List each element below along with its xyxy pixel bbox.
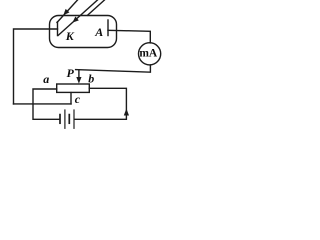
arrowhead slider P down (76, 77, 81, 84)
svg-text:a: a (43, 72, 49, 86)
battery long plate 1 (64, 110, 66, 128)
light ray 3 (88, 0, 105, 15)
slider arrow shaft P (78, 70, 80, 78)
cathode plate K (57, 22, 59, 36)
arrowhead ray 2 (72, 16, 78, 22)
svg-text:c: c (75, 92, 81, 106)
phototube envelope (50, 16, 117, 48)
svg-text:mA: mA (139, 48, 158, 60)
wire b lead to battery right (75, 88, 127, 119)
svg-text:b: b (88, 71, 94, 85)
rheostat box (57, 84, 90, 92)
wire a lead to battery left (33, 89, 59, 119)
svg-text:A: A (94, 25, 103, 39)
arrowhead ray 1 (63, 9, 69, 15)
wire c tap (70, 93, 72, 104)
arrowhead battery loop up (124, 109, 129, 116)
wire K bottom horizontal (14, 103, 72, 105)
ammeter mA circle (139, 43, 161, 65)
battery short plate 1 (59, 115, 61, 124)
svg-text:K: K (65, 29, 75, 43)
wire A lead to meter (108, 30, 150, 43)
battery short plate 2 (68, 115, 70, 124)
anode plate A (107, 20, 109, 36)
svg-text:P: P (67, 66, 75, 80)
light ray 1 (57, 0, 78, 23)
battery long plate 2 (73, 110, 75, 128)
wire meter bottom to slider (76, 65, 151, 72)
wire K lead left (14, 29, 58, 104)
light ray 2 (58, 0, 98, 36)
